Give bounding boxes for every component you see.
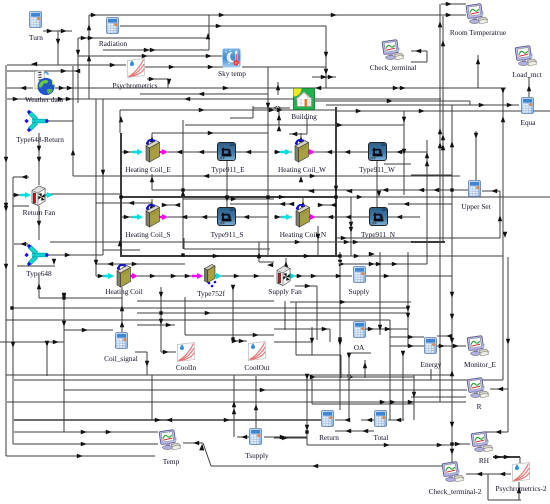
calculator Coil_signal xyxy=(116,333,128,349)
wire v x=476 xyxy=(475,131,477,180)
svg-text:Radiation: Radiation xyxy=(99,39,128,48)
wire v x=296 xyxy=(295,302,297,355)
wire h y=190 xyxy=(152,189,468,191)
svg-text:Total: Total xyxy=(374,433,389,442)
wire v x=259 xyxy=(258,256,260,262)
wire v x=404 xyxy=(403,111,405,195)
wire h y=206 xyxy=(13,205,29,207)
wire v x=285 xyxy=(284,301,286,330)
wire h y=377 xyxy=(312,376,414,378)
svg-text:Sky temp: Sky temp xyxy=(218,69,246,78)
wire h y=500 xyxy=(488,499,521,501)
calculator Equa xyxy=(522,98,534,114)
wire h y=266 xyxy=(17,265,55,267)
Monitor_E icon xyxy=(467,336,489,356)
svg-text:Type911_W: Type911_W xyxy=(359,165,395,174)
wire v x=427 xyxy=(426,51,428,62)
wire v x=168 xyxy=(167,79,169,88)
calculator Energy xyxy=(425,338,437,354)
wire h y=336 xyxy=(437,335,452,337)
wire v x=349 xyxy=(348,353,350,421)
wire h y=397 xyxy=(411,396,466,398)
svg-text:Room Temperatrue: Room Temperatrue xyxy=(450,28,506,37)
wire v x=58 xyxy=(57,31,59,65)
wire h y=432 xyxy=(14,431,158,433)
wire v x=152 xyxy=(151,133,153,139)
wire v x=301 xyxy=(300,133,302,139)
wire h y=121 xyxy=(49,120,73,122)
wire v x=529 xyxy=(528,77,530,97)
svg-text:CoolOut: CoolOut xyxy=(244,363,269,372)
wire h y=176 xyxy=(73,175,460,177)
svg-text:Heating Coil_N: Heating Coil_N xyxy=(280,230,327,239)
wire h y=217 xyxy=(386,216,420,218)
wire h y=217 xyxy=(122,216,140,218)
wire h y=420 xyxy=(388,419,404,421)
wire v x=452 xyxy=(451,105,453,463)
wire v x=520 xyxy=(519,457,521,463)
wire h y=420 xyxy=(361,419,374,421)
wire h y=286 xyxy=(295,285,317,287)
flow arrows (cyan/magenta) xyxy=(132,149,143,155)
wire h y=437 xyxy=(237,436,249,438)
svg-text:Temp: Temp xyxy=(163,457,180,466)
svg-text:Monitor_E: Monitor_E xyxy=(464,360,497,369)
svg-text:Equa: Equa xyxy=(521,118,537,127)
CoolIn icon xyxy=(178,343,195,362)
Type752f icon xyxy=(205,265,216,283)
junction dots xyxy=(10,306,13,309)
wire h y=105 xyxy=(326,104,519,106)
Type911_E icon xyxy=(218,143,236,161)
wire h y=466 xyxy=(211,465,452,467)
wire h y=217 xyxy=(274,216,292,218)
svg-text:Type648: Type648 xyxy=(26,269,52,278)
Return Fan icon xyxy=(32,186,45,206)
wire v x=89 xyxy=(88,15,90,99)
wire h y=256 xyxy=(121,255,340,257)
condensate drops under Type752f xyxy=(208,282,211,285)
wire h y=431 xyxy=(335,430,374,432)
wire v x=259 xyxy=(258,242,260,256)
wire v x=120 xyxy=(119,110,121,133)
wire v x=268 xyxy=(267,67,269,256)
svg-text:Energy: Energy xyxy=(421,360,442,369)
wire h y=94 xyxy=(140,93,268,95)
wire v x=152 xyxy=(151,199,153,205)
wire h y=77 xyxy=(312,76,336,78)
wire h y=375 xyxy=(6,374,452,376)
svg-text:Check_terminal-2: Check_terminal-2 xyxy=(429,487,482,496)
Load_mct icon xyxy=(515,46,537,66)
wire v x=39 xyxy=(38,206,40,240)
svg-text:Building: Building xyxy=(291,112,317,121)
wire h y=194 xyxy=(48,193,121,195)
svg-text:RH: RH xyxy=(479,456,490,465)
wire h y=56 xyxy=(78,55,222,57)
svg-text:Type911_E: Type911_E xyxy=(211,165,245,174)
RH icon xyxy=(471,432,493,452)
wire v x=209 xyxy=(208,15,210,50)
wire h y=353 xyxy=(347,352,371,354)
wire h y=31 xyxy=(43,30,72,32)
wire v x=330 xyxy=(329,329,331,342)
wire v x=519 xyxy=(518,482,520,500)
calculator Supply xyxy=(354,267,366,283)
wire h y=50 xyxy=(103,49,209,51)
wire h y=133 xyxy=(152,132,268,134)
svg-text:Heating Coil_W: Heating Coil_W xyxy=(278,165,326,174)
Psychrometrics-2 icon xyxy=(513,463,530,482)
wire h y=65 xyxy=(7,64,126,66)
wire v x=478 xyxy=(477,55,479,88)
wire h y=99 xyxy=(7,98,441,100)
wire h y=402 xyxy=(7,401,466,403)
wire h y=432 xyxy=(484,431,508,433)
wire h y=389 xyxy=(490,388,508,390)
wire v x=152 xyxy=(151,174,153,190)
wire v x=184 xyxy=(183,238,185,249)
wire h y=152 xyxy=(166,151,217,153)
svg-text:Type911_S: Type911_S xyxy=(211,230,244,239)
Building icon xyxy=(294,89,315,110)
wire h y=444 xyxy=(452,443,470,445)
wire h y=249 xyxy=(184,248,270,250)
wire h y=217 xyxy=(312,216,369,218)
Type911_W icon xyxy=(369,143,387,161)
wire h y=203 xyxy=(96,202,152,204)
wire v x=503 xyxy=(502,88,504,380)
wire h y=238 xyxy=(336,237,500,239)
svg-text:Type911_N: Type911_N xyxy=(361,230,396,239)
wire v x=234 xyxy=(233,375,235,437)
wire h y=67 xyxy=(242,66,326,68)
wire v x=227 xyxy=(226,161,228,207)
wire h y=444 xyxy=(13,443,158,445)
wire v x=103 xyxy=(102,99,104,255)
svg-text:Heating Coil_E: Heating Coil_E xyxy=(125,165,171,174)
Check_terminal-2 icon xyxy=(442,462,464,482)
wire v x=185 xyxy=(184,297,186,335)
Heating Coil icon xyxy=(117,264,131,287)
wire h y=355 xyxy=(296,354,341,356)
wire h y=152 xyxy=(122,151,140,153)
svg-text:Type752f: Type752f xyxy=(197,289,225,298)
wire h y=298 xyxy=(39,297,122,299)
wire v x=13 xyxy=(12,177,14,444)
wire h y=342 xyxy=(274,341,312,343)
wire v x=414 xyxy=(413,375,415,420)
wire h y=62 xyxy=(411,61,427,63)
calculator Return xyxy=(322,411,334,427)
calculator Total xyxy=(375,411,387,427)
wire h y=443 xyxy=(183,442,203,444)
wire h y=262 xyxy=(259,261,274,263)
wire v x=312 xyxy=(311,327,313,342)
calculator Turn xyxy=(30,12,42,28)
svg-text:OA: OA xyxy=(354,343,365,352)
wire v x=431 xyxy=(430,369,432,380)
wire v x=64 xyxy=(63,298,65,432)
wire h y=329 xyxy=(365,328,408,330)
wire h y=152 xyxy=(386,151,427,153)
svg-text:CoolIn: CoolIn xyxy=(176,363,197,372)
wire h y=244 xyxy=(14,243,28,245)
Type648 duct icon xyxy=(24,244,49,266)
R icon xyxy=(467,378,489,398)
svg-text:Supply Fan: Supply Fan xyxy=(268,287,302,296)
wire h y=134 xyxy=(289,133,307,135)
wire h y=242 xyxy=(259,241,411,243)
wire v x=508 xyxy=(507,257,509,432)
wire h y=199 xyxy=(183,198,274,200)
wire h y=301 xyxy=(137,300,274,302)
wire h y=302 xyxy=(290,301,411,303)
svg-text:Tsupply: Tsupply xyxy=(245,451,269,460)
wire h y=152 xyxy=(311,151,368,153)
wire h y=242 xyxy=(50,241,274,243)
svg-text:Type648-Return: Type648-Return xyxy=(16,135,64,144)
wire v x=147 xyxy=(146,352,148,375)
svg-text:Coil_signal: Coil_signal xyxy=(104,354,138,363)
wire v x=317 xyxy=(316,286,318,340)
Heating Coil_W icon xyxy=(295,139,309,162)
wire v x=152 xyxy=(151,375,153,420)
wire h y=438 xyxy=(274,437,307,439)
wire v x=377 xyxy=(376,161,378,207)
wire v x=303 xyxy=(302,197,304,203)
wire v x=443 xyxy=(442,16,444,242)
Heating Coil_N icon xyxy=(296,204,310,227)
svg-text:Weather data: Weather data xyxy=(25,95,64,104)
wire h y=276 xyxy=(293,275,352,277)
svg-text:Load_mct: Load_mct xyxy=(512,70,542,79)
wire v x=408 xyxy=(407,252,409,346)
wire v x=307 xyxy=(306,378,308,445)
wire h y=342 xyxy=(0,341,64,343)
svg-text:Return: Return xyxy=(319,433,339,442)
wire v x=279 xyxy=(278,110,280,125)
wire h y=177 xyxy=(13,176,29,178)
wire h y=276 xyxy=(366,275,452,277)
svg-text:Heating Coil: Heating Coil xyxy=(105,287,143,296)
wire h y=320 xyxy=(6,319,390,321)
wire h y=88 xyxy=(55,87,506,89)
wire h y=164 xyxy=(384,163,411,165)
wire h y=204 xyxy=(230,203,292,205)
wire v x=278 xyxy=(277,82,279,95)
wire h y=217 xyxy=(234,216,268,218)
wire v x=183 xyxy=(182,120,184,249)
svg-text:Return Fan: Return Fan xyxy=(23,208,56,217)
wire h y=457 xyxy=(493,456,520,458)
wire h y=242 xyxy=(411,241,445,243)
wire h y=191 xyxy=(482,190,500,192)
wire h y=346 xyxy=(390,345,424,347)
wire h y=474 xyxy=(466,473,511,475)
wire h y=205 xyxy=(318,204,332,206)
wire h y=152 xyxy=(274,151,292,153)
wire h y=255 xyxy=(49,254,103,256)
wire h y=111 xyxy=(336,110,550,112)
wire v x=39 xyxy=(38,276,40,298)
wire v x=351 xyxy=(350,197,352,256)
wire v x=73 xyxy=(72,66,74,176)
wire h y=71 xyxy=(7,70,78,72)
wire h y=456 xyxy=(6,455,155,457)
wire h y=390 xyxy=(64,389,467,391)
wire h y=118 xyxy=(230,117,253,119)
wire h y=15 xyxy=(89,14,466,16)
wire h y=380 xyxy=(14,379,503,381)
svg-text:Turn: Turn xyxy=(29,33,43,42)
wire v x=121 xyxy=(120,133,122,257)
wire v x=307 xyxy=(306,118,308,134)
svg-text:Heating Coil_S: Heating Coil_S xyxy=(125,230,170,239)
wire v x=39 xyxy=(38,133,40,160)
wire v x=286 xyxy=(285,258,287,267)
wire h y=329 xyxy=(274,328,330,330)
svg-text:Psychrometrics: Psychrometrics xyxy=(113,81,158,90)
wire h y=110 xyxy=(120,109,336,111)
wire v x=326 xyxy=(325,26,327,88)
psychrometrics chart icon xyxy=(128,59,145,78)
wire h y=195 xyxy=(13,194,28,196)
wire diagonal near Temp xyxy=(203,443,211,466)
Heating Coil_S icon xyxy=(146,204,160,227)
Type648-Return duct icon xyxy=(24,110,49,132)
wire v x=336 xyxy=(335,107,337,256)
calculator Tsupply xyxy=(250,429,262,445)
wire v x=380 xyxy=(379,252,381,335)
wire h y=108 xyxy=(253,107,290,109)
wire h y=51 xyxy=(411,50,427,52)
wire v x=341 xyxy=(340,355,342,378)
wire h y=197 xyxy=(121,196,336,198)
wire v x=253 xyxy=(252,106,254,118)
svg-text:Check_terminal: Check_terminal xyxy=(370,63,417,72)
wire v x=39 xyxy=(38,162,40,185)
wire h y=204 xyxy=(388,203,452,205)
wire h y=250 xyxy=(103,249,140,251)
wire h y=67 xyxy=(145,66,223,68)
wire v x=403 xyxy=(402,352,404,420)
wire h y=256 xyxy=(340,255,503,257)
wire h y=437 xyxy=(264,436,307,438)
wire h y=335 xyxy=(185,334,274,336)
wire h y=38 xyxy=(78,37,209,39)
wire v x=6 xyxy=(5,65,7,456)
wire h y=420 xyxy=(14,419,321,421)
wire h y=346 xyxy=(437,345,466,347)
wire h y=341 xyxy=(233,340,247,342)
wire v x=500 xyxy=(499,191,501,238)
Room Temperatrue icon xyxy=(466,4,488,24)
wire h y=308 xyxy=(12,307,408,309)
wire h y=276 xyxy=(96,275,114,277)
wire h y=352 xyxy=(161,351,176,353)
svg-text:Psychrometrics-2: Psychrometrics-2 xyxy=(495,484,546,493)
wire v x=47 xyxy=(46,342,48,376)
wire v x=78 xyxy=(77,38,79,103)
wire v x=365 xyxy=(364,360,366,378)
wire v x=312 xyxy=(311,377,313,404)
wire h y=420 xyxy=(335,419,350,421)
wire v x=340 xyxy=(339,252,341,410)
wire v x=256 xyxy=(255,376,257,428)
wire h y=445 xyxy=(307,444,452,446)
wire h y=175 xyxy=(411,174,452,176)
wire h y=276 xyxy=(220,275,274,277)
sky temp icon xyxy=(223,49,241,68)
wire h y=404 xyxy=(312,403,414,405)
wire h y=205 xyxy=(164,204,176,206)
wire h y=352 xyxy=(135,351,147,353)
wire h y=330 xyxy=(64,329,113,331)
CoolOut icon xyxy=(249,342,266,361)
wire v x=470 xyxy=(469,101,471,105)
wire v x=488 xyxy=(487,474,489,500)
calculator Radiation xyxy=(107,18,119,34)
svg-text:Supply: Supply xyxy=(349,287,370,296)
wire h y=337 xyxy=(390,336,424,338)
wire v x=440 xyxy=(439,4,441,402)
wire h y=101 xyxy=(315,100,470,102)
wire v x=312 xyxy=(311,342,313,355)
Type911_S icon xyxy=(218,208,236,226)
wire h y=26 xyxy=(120,25,326,27)
wire v x=96 xyxy=(95,99,97,276)
wire h y=125 xyxy=(185,124,404,126)
wire v x=318 xyxy=(317,226,319,256)
svg-text:Upper Set: Upper Set xyxy=(461,202,490,211)
wire v x=161 xyxy=(160,287,162,352)
calculator Upper Set xyxy=(469,181,481,197)
wire h y=79 xyxy=(147,78,168,80)
wire h y=264 xyxy=(340,263,427,265)
Supply Fan icon xyxy=(277,266,290,286)
Check_terminal icon xyxy=(382,40,404,60)
wire v x=390 xyxy=(389,320,391,420)
wire v x=233 xyxy=(232,287,234,339)
wire h y=325 xyxy=(137,324,175,326)
wire h y=88 xyxy=(7,87,33,89)
wire h y=4 xyxy=(441,3,466,5)
Temp icon xyxy=(159,430,181,450)
wire h y=152 xyxy=(236,151,268,153)
wire h y=276 xyxy=(135,275,202,277)
wire h y=313 xyxy=(137,312,408,314)
wire h y=217 xyxy=(166,216,217,218)
weather data icon xyxy=(35,71,55,96)
wire h y=264 xyxy=(96,263,185,265)
Type911_N icon xyxy=(370,208,388,226)
calculator OA xyxy=(354,322,366,338)
wire v x=427 xyxy=(426,140,428,264)
wire h y=197 xyxy=(336,196,550,198)
Heating Coil_E icon xyxy=(146,139,160,162)
svg-text:R: R xyxy=(477,402,482,411)
wire v x=122 xyxy=(121,287,123,332)
